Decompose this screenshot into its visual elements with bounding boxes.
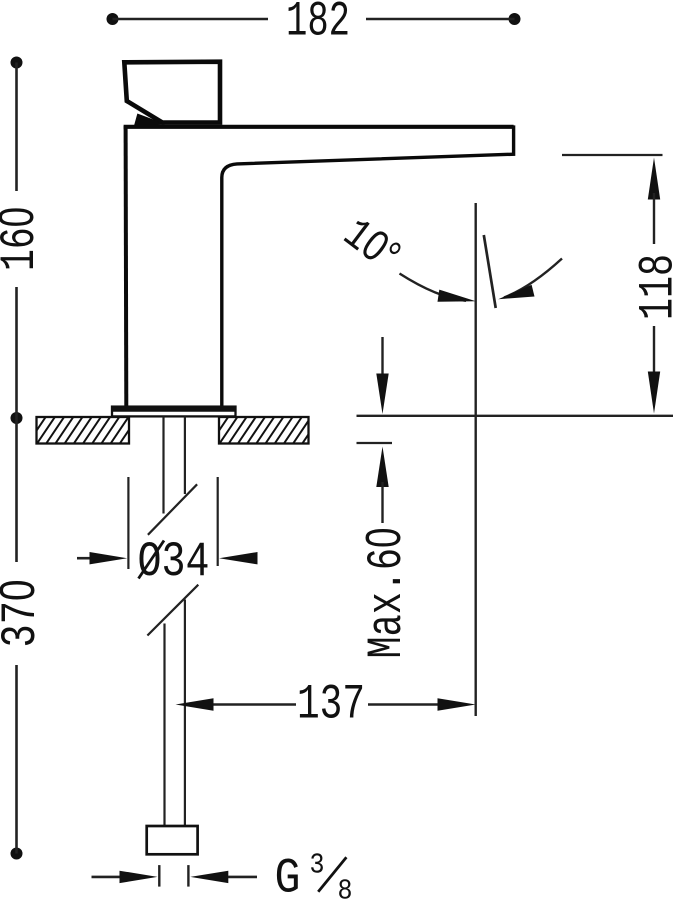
supply connector block [147, 826, 198, 854]
supply pipe right wall lower [184, 600, 186, 827]
dim Max.60 lower arrow stem [381, 482, 383, 523]
dim O34 left arrowhead [90, 552, 128, 564]
pipe break slash lower [147, 585, 198, 636]
supply pipe left wall lower [163, 624, 165, 827]
dim 137 right arrowhead [438, 698, 476, 710]
svg-text:Max.60: Max.60 [357, 528, 415, 659]
dim 118 lower arrowhead (down) [648, 372, 660, 414]
dim G3/8 left tick [158, 865, 160, 887]
dim 182 line right segment [366, 18, 515, 21]
dim O34 left tail [77, 557, 90, 560]
dim 137 line left segment [214, 703, 297, 705]
dim 182 top: left dot [107, 13, 119, 25]
supply pipe left wall upper [162, 417, 164, 514]
dim 370 line lower segment [15, 665, 18, 854]
dim 160 line upper segment [15, 63, 18, 192]
dim G3/8 fraction slash [318, 857, 346, 892]
dim O34 diameter slash [139, 541, 165, 579]
dim 118 upper arrowhead (up) [648, 158, 660, 200]
dim 137 line right segment [368, 703, 438, 705]
faucet handle lever tip (filled wedge) [135, 114, 165, 125]
faucet spout deck top line [124, 125, 514, 129]
faucet handle [124, 62, 220, 123]
dim Max.60 upper arrow stem [381, 337, 383, 379]
dim 182 top: right dot [509, 13, 521, 25]
countertop top reference line [357, 415, 673, 417]
dim 160/370 left: middle dot [11, 412, 23, 424]
svg-text:118: 118 [631, 254, 673, 320]
faucet base plate [112, 407, 236, 417]
angle arc right [504, 259, 562, 298]
faucet spout right end + underside + inner column edge [222, 125, 514, 406]
dim G3/8 left arrowhead [120, 871, 158, 883]
svg-text:182: 182 [286, 0, 350, 49]
dim O34 extension line right [217, 477, 219, 566]
dim 118 top reference line [562, 154, 663, 156]
faucet base plate thick top edge [112, 407, 236, 412]
dim G3/8 left tail [92, 876, 121, 879]
svg-text:8: 8 [338, 875, 353, 900]
faucet column left edge [124, 126, 129, 407]
countertop hatched section left [19, 417, 147, 444]
angle arc left arrowhead [438, 290, 476, 302]
dim 160 line lower segment [15, 287, 18, 418]
dim G3/8 right tail [228, 876, 257, 879]
angle arc right arrowhead [498, 285, 534, 299]
pipe break slash upper [148, 484, 197, 535]
dim 370 line upper segment [15, 418, 18, 562]
dim O34 right arrowhead [219, 552, 257, 564]
countertop hatched section right [201, 417, 320, 444]
angle arc left [400, 274, 467, 301]
svg-text:3: 3 [310, 849, 325, 882]
dim G3/8 right tick [187, 865, 189, 887]
angle ref vertical line [475, 203, 477, 716]
supply pipe right wall upper [184, 417, 186, 495]
svg-text:370: 370 [0, 580, 49, 648]
countertop bottom reference tick [357, 442, 393, 444]
dim 160/370 left: top dot [11, 57, 23, 69]
dim 118 lower stem [653, 326, 655, 377]
dim 182 line left segment [113, 18, 269, 21]
svg-text:G: G [275, 851, 301, 900]
dim 118 upper stem [653, 193, 655, 244]
dim Max.60 lower arrowhead (up) [376, 447, 388, 488]
dim 160/370 left: bottom dot [11, 848, 23, 860]
dim O34 extension line left [127, 477, 129, 569]
angle tilted line (10 deg) [484, 235, 496, 308]
dim 137 left arrowhead [176, 698, 214, 710]
dim G3/8 right arrowhead [190, 871, 228, 883]
svg-text:160: 160 [0, 207, 48, 271]
dim Max.60 upper arrowhead (down) [376, 374, 388, 415]
svg-text:137: 137 [297, 677, 365, 733]
